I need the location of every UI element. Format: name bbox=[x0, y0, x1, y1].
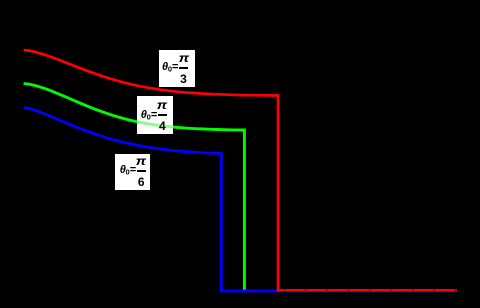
x-axis tick marks bbox=[284, 289, 286, 291]
blue curve theta0=pi/6 bbox=[24, 108, 457, 292]
red curve theta0=pi/3 bbox=[24, 50, 457, 290]
label box theta0 = pi/3 bbox=[159, 50, 195, 87]
dark lower edge of bottom line bbox=[279, 291, 457, 293]
label box theta0 = pi/6 bbox=[115, 154, 151, 190]
green curve theta0=pi/4 bbox=[24, 84, 245, 292]
label box theta0 = pi/4 (green curve passes behind) bbox=[137, 96, 173, 135]
